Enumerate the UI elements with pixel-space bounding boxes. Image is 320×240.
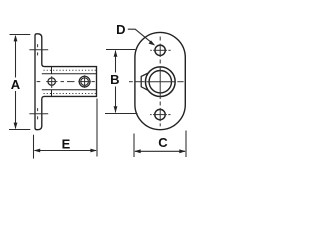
svg-text:A: A <box>11 77 21 92</box>
dimension E extension line right <box>96 99 98 157</box>
dimension C extension line right <box>185 131 187 158</box>
svg-text:D: D <box>116 22 125 37</box>
svg-text:B: B <box>110 72 119 87</box>
svg-text:E: E <box>62 137 71 152</box>
bottom hole crosshair <box>150 114 170 116</box>
bottom mounting hole <box>155 109 165 119</box>
dimension B line with arrows <box>115 51 117 113</box>
left pin hole circle <box>48 78 55 85</box>
barrel bore line upper <box>42 73 97 75</box>
dimension C line with arrows <box>135 150 185 152</box>
dimension A extension line top <box>10 34 31 36</box>
top mounting hole <box>155 45 165 55</box>
plate top hole centerline tick <box>29 44 48 55</box>
vertical centerline <box>159 37 161 127</box>
dimension B extension line top <box>106 49 135 51</box>
barrel bore line lower <box>42 89 97 91</box>
dimension A line with arrows <box>15 36 17 129</box>
right pin hole crosshair <box>78 75 91 88</box>
barrel hidden dotted line lower <box>44 93 97 95</box>
leader line from D <box>128 29 151 42</box>
top hole crosshair <box>150 49 170 51</box>
right pin hole inner circle <box>81 78 89 86</box>
barrel step edge upper <box>51 67 53 74</box>
dimension A extension line bottom <box>9 129 30 131</box>
boss tab <box>141 73 148 90</box>
dimension B extension line bottom <box>105 113 138 115</box>
front view oval plate <box>135 32 185 129</box>
barrel axis centerline <box>37 81 95 83</box>
side view plate outline <box>35 34 97 130</box>
boss outer circle <box>145 67 175 97</box>
svg-text:C: C <box>158 135 168 150</box>
barrel step edge lower <box>51 90 53 97</box>
dimension E line with arrows <box>35 150 97 152</box>
dimension C extension line left <box>133 134 135 158</box>
left pin hole crosshair <box>46 76 57 88</box>
horizontal centerline <box>129 81 184 83</box>
dimension E extension line left <box>33 135 35 159</box>
boss inner circle <box>149 71 171 93</box>
barrel hidden dotted line upper <box>44 69 97 71</box>
plate bottom hole centerline tick <box>29 108 48 119</box>
right pin hole outer circle <box>79 76 90 87</box>
